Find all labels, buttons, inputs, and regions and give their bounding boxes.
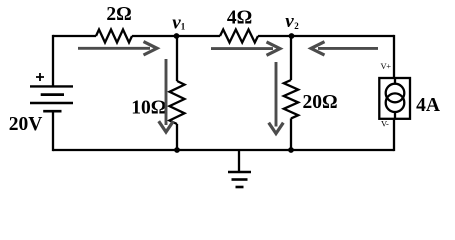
svg-text:1: 1 bbox=[181, 22, 186, 32]
svg-text:V-: V- bbox=[381, 119, 389, 129]
ground bar 2 bbox=[232, 178, 248, 181]
node dot bottom of 20ohm bbox=[288, 147, 294, 153]
wire right branch lower (box to bottom corner) bbox=[393, 119, 395, 151]
current arrow down through 20ohm bbox=[269, 62, 284, 134]
svg-text:20V: 20V bbox=[9, 114, 43, 135]
battery V1 plate long top bbox=[30, 85, 73, 87]
ground bar 3 bbox=[236, 186, 244, 189]
wire from 20ohm down to bottom wire bbox=[290, 118, 292, 150]
ground stub bbox=[238, 150, 240, 172]
current arrow right through 2ohm bbox=[78, 42, 157, 55]
wire left branch upper (corner to battery) bbox=[53, 35, 54, 87]
resistor R1 2ohm zigzag bbox=[96, 30, 132, 43]
wire stub inside box bottom bbox=[394, 112, 396, 119]
wire stub inside box top bbox=[394, 78, 396, 84]
resistor R4 20ohm zigzag bbox=[284, 80, 298, 118]
wire bottom from ground junction to right corner bbox=[239, 149, 394, 151]
battery V1 plate shortest bbox=[43, 110, 61, 113]
current source I1 lower circle bbox=[386, 93, 405, 112]
wire top between 4ohm and node v2 bbox=[258, 35, 292, 37]
current arrow right through 4ohm bbox=[211, 42, 280, 55]
wire top between 2ohm and node v1 bbox=[132, 35, 177, 37]
svg-text:v: v bbox=[285, 11, 294, 32]
svg-text:V+: V+ bbox=[381, 61, 392, 71]
wire from v1 down to 10ohm bbox=[176, 36, 178, 81]
svg-text:4Ω: 4Ω bbox=[227, 8, 252, 29]
wire top from left corner to 2ohm resistor bbox=[53, 35, 96, 37]
battery V1 plate long bottom bbox=[30, 102, 73, 104]
node v1 dot bbox=[174, 33, 180, 39]
resistor R3 10ohm zigzag bbox=[170, 81, 185, 124]
svg-text:2Ω: 2Ω bbox=[106, 4, 131, 25]
wire right branch upper (corner to source box) bbox=[393, 35, 395, 78]
battery V1 plus sign bbox=[36, 73, 44, 81]
wire from v2 down to 20ohm bbox=[290, 36, 292, 80]
node v2 dot bbox=[289, 33, 295, 39]
current source I1 box bbox=[379, 78, 410, 119]
svg-text:4A: 4A bbox=[416, 95, 440, 116]
node dot bottom of 10ohm bbox=[174, 147, 180, 153]
wire left branch lower (battery to bottom corner) bbox=[53, 111, 54, 151]
current arrow left from source toward v2 bbox=[311, 42, 378, 55]
svg-text:2: 2 bbox=[294, 21, 299, 31]
wire from 10ohm down to bottom wire bbox=[176, 124, 178, 150]
current source I1 upper circle bbox=[386, 84, 405, 103]
wire top from node v2 to top-right corner bbox=[292, 35, 395, 37]
ground bar 1 bbox=[228, 171, 251, 174]
svg-text:10Ω: 10Ω bbox=[131, 98, 166, 119]
wire bottom from left corner to ground junction bbox=[53, 149, 239, 151]
svg-text:20Ω: 20Ω bbox=[302, 92, 337, 113]
current arrow down through 10ohm bbox=[159, 59, 174, 132]
resistor R2 4ohm zigzag bbox=[220, 30, 258, 43]
wire top between node v1 and 4ohm bbox=[177, 35, 221, 37]
battery V1 plate short bbox=[41, 93, 64, 96]
